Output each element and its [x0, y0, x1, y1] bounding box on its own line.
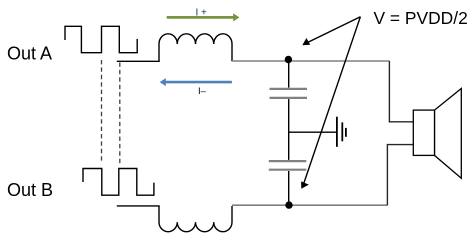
speaker box [413, 110, 434, 155]
svg-text:Out A: Out A [7, 44, 52, 64]
Out A square wave [65, 26, 137, 52]
wire Out B to L2 [117, 205, 160, 207]
wire capacitor branch upper [288, 60, 290, 88]
inductor L1 [159, 34, 232, 62]
wire capacitor branch middle [288, 99, 290, 160]
annotation arrow to top node: head [302, 38, 310, 45]
svg-text:V = PVDD/2: V = PVDD/2 [374, 8, 468, 28]
wire right bottom vertical to speaker [387, 145, 413, 206]
svg-text:I +: I + [196, 7, 208, 18]
Out B square wave [83, 169, 154, 196]
node top junction [285, 56, 292, 63]
capacitor C2 [269, 161, 307, 170]
capacitor C1 [270, 89, 308, 98]
wire Out A to L1 [117, 60, 160, 62]
inductor L2 [159, 206, 232, 232]
wire right top vertical to speaker [389, 61, 413, 122]
wire capacitor branch lower [288, 171, 290, 204]
ground symbol [337, 117, 346, 147]
dashed timing line right [119, 63, 121, 164]
annotation arrow to top node: line [307, 17, 361, 43]
node bottom junction [285, 201, 292, 208]
current arrow I+ head [233, 13, 239, 21]
wire bottom rail [232, 204, 387, 206]
speaker horn [435, 89, 462, 179]
annotation arrow to bottom node: line [304, 17, 361, 183]
svg-text:Out B: Out B [7, 180, 53, 200]
current arrow I+ shaft [167, 16, 234, 19]
annotation arrow to bottom node: head [301, 181, 309, 188]
wire to ground [289, 131, 337, 133]
current arrow I- head [160, 78, 166, 86]
svg-text:I–: I– [198, 86, 207, 97]
current arrow I- shaft [165, 81, 232, 84]
dashed timing line left [101, 60, 103, 164]
wire top rail [232, 60, 389, 62]
